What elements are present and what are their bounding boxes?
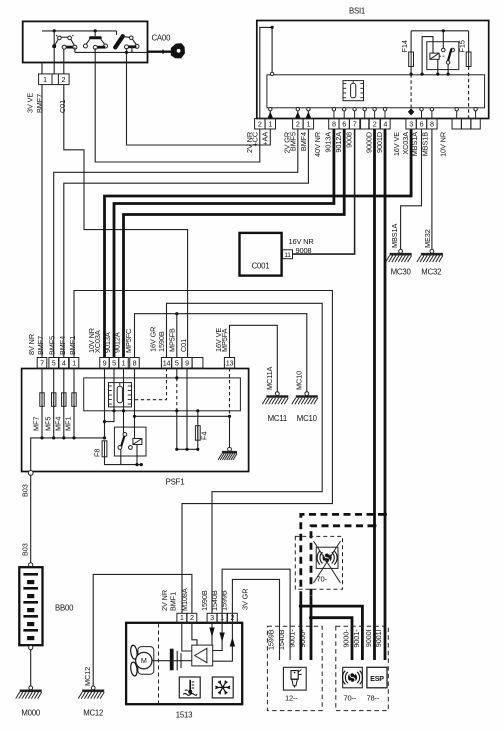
svg-text:3V GR: 3V GR [241,589,250,610]
svg-text:+AA: +AA [260,132,269,146]
svg-text:2: 2 [258,119,262,128]
wire coil bottom drop [136,445,138,465]
svg-text:5: 5 [175,358,179,367]
heavy wire 9000 branch lower [310,596,313,618]
motor coupling bar [170,649,174,671]
svg-text:BSI1: BSI1 [349,7,365,16]
svg-text:6: 6 [420,119,424,128]
switch contact 3 blade (thick diagonal) [115,36,123,47]
node 9013A frame bottom [112,409,115,412]
node C01 bottom [185,448,188,451]
wire MP5FC riser to MC10 line [135,314,307,392]
terminal circle on rail top [270,72,273,75]
svg-text:4: 4 [62,358,66,367]
heavy dashed wire 9000 branch [311,526,375,596]
fuse MF5 [53,368,55,438]
dashed connector box 70 78 [336,626,389,710]
arrow up at BSI1 pin1a [268,112,273,119]
svg-text:9000-: 9000- [298,629,307,648]
wire top bus drop to blade 3 [116,31,118,35]
node 9000 split [309,616,313,620]
svg-text:7: 7 [353,119,357,128]
dashed box ESP unit 70- (variant) [295,536,342,589]
wire 9013A inside frame [113,368,115,411]
svg-text:BB00: BB00 [55,604,74,613]
wire battery to M000 [30,650,32,686]
svg-text:1590B: 1590B [200,590,209,611]
wire XC03A heavy BSI1 pin3 to PSF1 conn2 pin9 [105,129,412,358]
switch contact pair 2 bar [89,36,102,39]
wire pin13 ground leg [229,416,231,447]
battery bottom terminal [29,645,33,649]
svg-text:C01: C01 [58,100,67,113]
svg-text:9001-: 9001- [352,629,361,648]
svg-text:40V NR: 40V NR [313,132,322,157]
svg-text:B03: B03 [21,484,30,497]
wire feed drop to rail [271,27,273,73]
wire +CC ignition to BSI1 pin2 [95,48,260,162]
wire 9012A heavy BSI1 pin6 to PSF1 conn2 pin1 [124,129,345,358]
node 9000D branch [373,524,377,528]
node feed loop corner [271,26,274,29]
svg-text:3: 3 [210,613,214,622]
wire riser to relay bottom contact [120,450,122,465]
heavy wire 9000 into connector 12 [310,618,313,660]
svg-text:BMF1: BMF1 [68,336,77,355]
svg-text:MC12: MC12 [83,709,103,718]
svg-text:1599B: 1599B [266,629,275,650]
dashed connector box 12 [267,626,322,710]
svg-text:9: 9 [185,358,189,367]
svg-text:C01: C01 [179,339,188,352]
wire F4 leg [197,411,199,450]
svg-text:XC03A: XC03A [401,132,410,155]
battery BB00 top terminal [29,563,33,567]
injector icon box [283,667,306,690]
dashed wire conn3 pin14 into grid [131,368,167,400]
thermometer icon box [179,677,200,698]
BSI1 fuse/relay unit box [257,21,489,119]
svg-text:1: 1 [306,119,310,128]
heavy dashed wire 9001 branch [301,514,385,592]
svg-text:5: 5 [52,358,56,367]
ESP glyph in 70- [317,551,322,565]
wire BSI1 pin2 feed loop [260,27,272,118]
snowflake glyph [215,680,230,694]
node contact rail [447,73,450,76]
svg-text:+CC: +CC [250,132,259,147]
connector unit C001 [240,233,282,276]
svg-text:8: 8 [430,119,434,128]
fuse F8 [102,441,107,457]
arrow up at BSI1 pin2b [295,112,300,119]
wire CA00 middle cell stub [53,48,55,74]
svg-text:C001: C001 [252,262,270,271]
wire F8 to relay contact [105,457,142,465]
wire 1590B pin3 into amplifier with arrow [211,623,213,645]
svg-text:1: 1 [268,119,272,128]
PSF1 connector grid symbol [109,383,132,407]
node MP5FA leg [228,415,231,418]
wire +AA ignition to BSI1 pin1 [127,48,271,145]
svg-text:1513: 1513 [176,711,193,720]
svg-text:M: M [141,656,147,665]
wire relay coil feed loop [422,37,433,75]
svg-text:M000: M000 [21,709,41,718]
svg-text:1599B: 1599B [219,590,228,611]
thermometer glyph [183,680,197,696]
arrow up at BSI1 pin1b [306,112,311,119]
svg-text:F8: F8 [93,449,102,457]
PSF1 internal busbar frame [84,378,241,411]
switch contact pair 1 [55,35,74,45]
ground MC11 [275,392,279,396]
ESP text box [367,667,387,688]
C001 pin 11 box [283,250,293,259]
ESP unit icon box [316,547,338,568]
node F14 rail [410,73,413,76]
switch bottom bridge 2 [96,46,105,49]
wire BMF7 from C01 pin1 down to PSF1 pin7 [41,85,43,358]
wire motor to amplifier [152,660,192,662]
svg-text:MP5FA: MP5FA [220,328,229,352]
wire 1540B pin1 into amplifier right with arrow [213,623,222,651]
PSF1 conn1 pin boxes 7 5 4 1 [37,358,79,369]
svg-text:1: 1 [180,613,184,622]
svg-text:MP5FC: MP5FC [124,329,133,353]
svg-text:ME32: ME32 [423,229,432,248]
snowflake icon box [212,677,233,698]
fan motor M [130,645,154,677]
svg-text:BMF1: BMF1 [168,592,177,611]
wire F14 top to busbar [410,31,412,52]
ground MC12 [91,686,95,690]
node coil feed on rail [421,73,424,76]
svg-text:9008: 9008 [296,246,312,255]
BSI1 connector grid symbol [343,81,364,101]
wire C01 conn3 pin9 drop [186,368,188,449]
svg-text:BMF5: BMF5 [48,336,57,355]
1513 fan unit box [126,623,242,704]
heavy wire 9001 to ESP connector [301,606,363,660]
relay coil [430,53,439,59]
node conn2 pin9 drop [103,420,106,423]
svg-text:BMF7: BMF7 [35,94,44,113]
relay switch contacts [442,48,455,64]
svg-text:9000I: 9000I [364,629,373,647]
wire F15 top to busbar [468,31,470,52]
svg-text:MF4: MF4 [53,417,62,431]
svg-text:BMF7: BMF7 [36,336,45,355]
wire 1590B riser PSF1 pin14 over to 1513 [167,303,323,613]
node coil rail [436,73,439,76]
node MF5 bus [52,436,55,439]
svg-text:9000-: 9000- [342,629,351,648]
wire bar stem 2 [94,31,96,36]
node MF4 bus [62,436,65,439]
switch internal top bus wire [42,30,117,32]
svg-text:MF5: MF5 [43,417,52,431]
node F4 bottom [196,448,199,451]
wire MP5FB riser [176,314,178,358]
svg-text:9001I: 9001I [374,629,383,647]
BSI1 internal supply rail box [267,75,485,108]
node +AA junction on common rail [125,51,128,54]
wire 1599B 1513 pin2b to connector 12 [232,579,279,660]
svg-text:2: 2 [190,613,194,622]
svg-text:9012A: 9012A [113,332,122,353]
svg-text:16V VE: 16V VE [392,132,401,156]
svg-text:5: 5 [112,358,116,367]
wire MP5FC pin8 to relay coil [134,368,136,439]
svg-text:MC11A: MC11A [265,366,274,390]
svg-text:ESP: ESP [370,674,384,683]
dashed wire F15 down [468,67,470,119]
wire C01 net from C01 pin2 to PSF1 conn3 pin9 [64,85,188,358]
wire BMF5 BSI1 pin2b to PSF1 pin5 [54,129,298,358]
node MP5FB bottom [175,448,178,451]
fuse MF4 [63,368,65,438]
wire 9013A heavy BSI1 pin8 to PSF1 conn2 pin5 [114,129,334,358]
heavy wire 9000 to ESP connector [311,618,352,660]
terminal B03 on PSF1 [28,471,33,476]
ground M000 [29,686,33,690]
ground MC30 [399,249,403,253]
PSF1 conn4 pin box 13 [224,358,234,369]
key symbol [148,43,185,58]
wire XC03A into busbar frame [104,368,106,438]
svg-text:9013A: 9013A [324,132,333,153]
svg-text:MC10: MC10 [297,414,318,423]
1513 internal partition dashed [158,624,160,704]
svg-text:PSF1: PSF1 [166,478,185,487]
wire 1513 pin1 to amplifier [182,623,192,651]
svg-text:MC30: MC30 [391,268,412,277]
cross-out X over 70- [314,541,341,583]
BSI1 top busbar [411,30,469,32]
node 9001 split [299,604,303,608]
switch contact pair 3 [123,36,129,39]
svg-text:XC03A: XC03A [93,330,102,353]
wire MP5FA riser PSF1 pin13 to MC11 [230,325,278,392]
heavy wire 9001 into connector 12 [299,606,302,660]
svg-text:10V NR: 10V NR [439,132,448,157]
svg-text:BMF4: BMF4 [58,336,67,355]
switch contact pair 2 legs [86,39,90,44]
node MF1 bus [72,436,75,439]
svg-text:4: 4 [383,119,387,128]
svg-text:8: 8 [332,119,336,128]
heavy wire 9001 branch lower [299,592,302,606]
connector C01 below ignition switch [39,74,70,85]
svg-text:1540B: 1540B [277,629,286,650]
svg-text:MC10: MC10 [295,371,304,390]
svg-text:9000D: 9000D [364,132,373,153]
PSF1 engine fusebox outline [22,369,249,472]
fuse F4 [195,426,200,441]
svg-text:7: 7 [40,358,44,367]
wire coil return to MP5FA ground leg [135,415,230,417]
svg-text:1590B: 1590B [157,331,166,352]
svg-text:MC12: MC12 [83,667,92,686]
svg-text:8V NR: 8V NR [27,334,36,355]
svg-text:13: 13 [226,358,234,367]
PSF1 relay box [114,427,146,456]
diamond node at BSI1 pin3 [408,108,414,115]
node switch contact 1 feed [53,29,56,32]
svg-text:MP5FB: MP5FB [167,328,176,352]
wire BMF1 riser PSF1 pin1 over to 1513 [74,291,332,614]
svg-text:11: 11 [284,252,291,259]
node 9001D branch [383,512,387,516]
fuse F15 [466,52,471,67]
svg-text:2: 2 [62,77,66,84]
svg-text:MF1: MF1 [64,417,73,431]
svg-text:9008: 9008 [344,132,353,148]
wire 1540B 1513 pin1b to connector 12 [222,569,290,660]
wire CA00 to C01 pin1 [41,63,43,74]
node 9012A frame bottom [122,409,125,412]
svg-text:3: 3 [409,119,413,128]
ground MC32 [430,249,434,253]
svg-text:78--: 78-- [367,694,380,703]
PSF1 relay blade and contacts [118,433,132,450]
PSF1 battery bus [31,438,105,472]
wire M108A pin2 into amplifier top [192,623,197,645]
PSF1 internal ground [228,447,232,451]
svg-text:1: 1 [43,77,47,84]
svg-text:F14: F14 [400,40,409,52]
wire relay contact to rail [447,64,449,74]
wire F14 bottom to rail [410,67,412,75]
node MF7 bus [40,436,43,439]
amplifier triangle [195,648,207,662]
wire 1599B pin2 from amplifier with up arrow [213,623,233,661]
node MP5FB tap [175,312,178,315]
svg-text:9: 9 [103,358,107,367]
wire MP5FB conn3 pin5 drop [176,368,178,378]
svg-text:M108A: M108A [180,588,189,611]
ESP glyph in connector 70 [342,671,347,685]
amplifier box [192,645,213,666]
svg-text:8: 8 [133,358,137,367]
injector glyph [291,670,302,688]
BSI1 connector pin boxes [255,119,481,130]
svg-text:12--: 12-- [285,694,298,703]
svg-text:B03: B03 [21,543,30,556]
switch bottom bridge 1 [65,46,75,49]
svg-text:9001D: 9001D [375,132,384,153]
dashed wire MP5FA pin13 to internal ground [229,368,231,416]
PSF1 conn2 pin boxes 9 5 1 8 [100,358,140,369]
svg-text:1: 1 [72,358,76,367]
svg-text:2: 2 [296,119,300,128]
svg-text:MF7: MF7 [32,417,41,431]
svg-text:MC32: MC32 [421,268,441,277]
svg-text:9001-: 9001- [288,629,297,648]
1513 conn1 pin boxes [177,613,197,623]
wire MBS1B/ME32 BSI1 pin8b to MC32 [431,129,433,250]
PSF1 relay coil [133,439,142,445]
fuse MF7 [41,368,43,438]
svg-text:70-: 70- [317,575,328,584]
wire CA00 to C01 pin2 [63,49,65,74]
svg-text:BMF4: BMF4 [299,132,308,151]
node +CC on top bus [94,29,97,32]
relay mechanical link dashed [439,55,445,57]
svg-text:14: 14 [163,358,171,367]
wire switch common rail to key [75,51,148,53]
svg-text:2: 2 [373,119,377,128]
svg-text:MC11: MC11 [268,414,287,423]
wire relay common from busbar [442,31,444,48]
svg-text:9013A: 9013A [103,332,112,353]
node bus to F8 [103,436,106,439]
node busbar to relay [442,29,445,32]
node MP5FB frame top [175,376,178,379]
svg-text:3V VE: 3V VE [26,93,35,113]
node F4 top [196,409,199,412]
fuse F14 [409,52,414,67]
svg-text:1: 1 [122,358,126,367]
svg-text:1540B: 1540B [210,590,219,611]
ground MC10 [305,392,309,396]
suppressor plates [176,651,178,671]
relay R1 in BSI1 [427,42,459,70]
svg-text:BMF5: BMF5 [289,132,298,151]
wire 9012A to relay common [123,368,125,434]
wire 9008 BSI1 pin7 to C001 [293,129,355,254]
wire BMF4 BSI1 pin1b to PSF1 pin4 [64,129,309,358]
svg-text:CA00: CA00 [152,34,172,43]
wire B03 to battery [30,475,32,563]
fuse MF1 [73,368,75,438]
node relay output [140,463,143,466]
1513 conn2 pin boxes [207,613,237,623]
wire link pin9 to pin5 bus [105,411,115,422]
ignition switch CA00 box [23,21,148,62]
wire 9001D heavy BSI1 pin4 down [384,129,387,660]
rail terminal circles and stubs [269,108,478,119]
battery BB00 [19,567,42,645]
wire switch blade stem 1 [53,31,55,46]
wire MBS1A BSI1 pin6b to MC30 [401,129,422,250]
wire relay coil to rail [437,59,439,74]
wire 9000D heavy BSI1 pin2c down [373,129,376,660]
svg-text:6: 6 [342,119,346,128]
relay feed link bottom [177,448,198,450]
svg-text:MBS1A: MBS1A [390,224,399,248]
node MP5FC coil line [133,415,136,418]
switch bottom bridge 3 [128,45,137,48]
wire M108A 1513 pin2 to MC12 [93,574,192,686]
svg-text:70--: 70-- [344,694,357,703]
dashed wire F14 to pin3 [410,74,412,109]
ESP icon box in connector 70 [343,667,363,688]
svg-text:F4: F4 [200,432,209,440]
PSF1 conn3 pin boxes 14 5 9 [161,358,203,369]
